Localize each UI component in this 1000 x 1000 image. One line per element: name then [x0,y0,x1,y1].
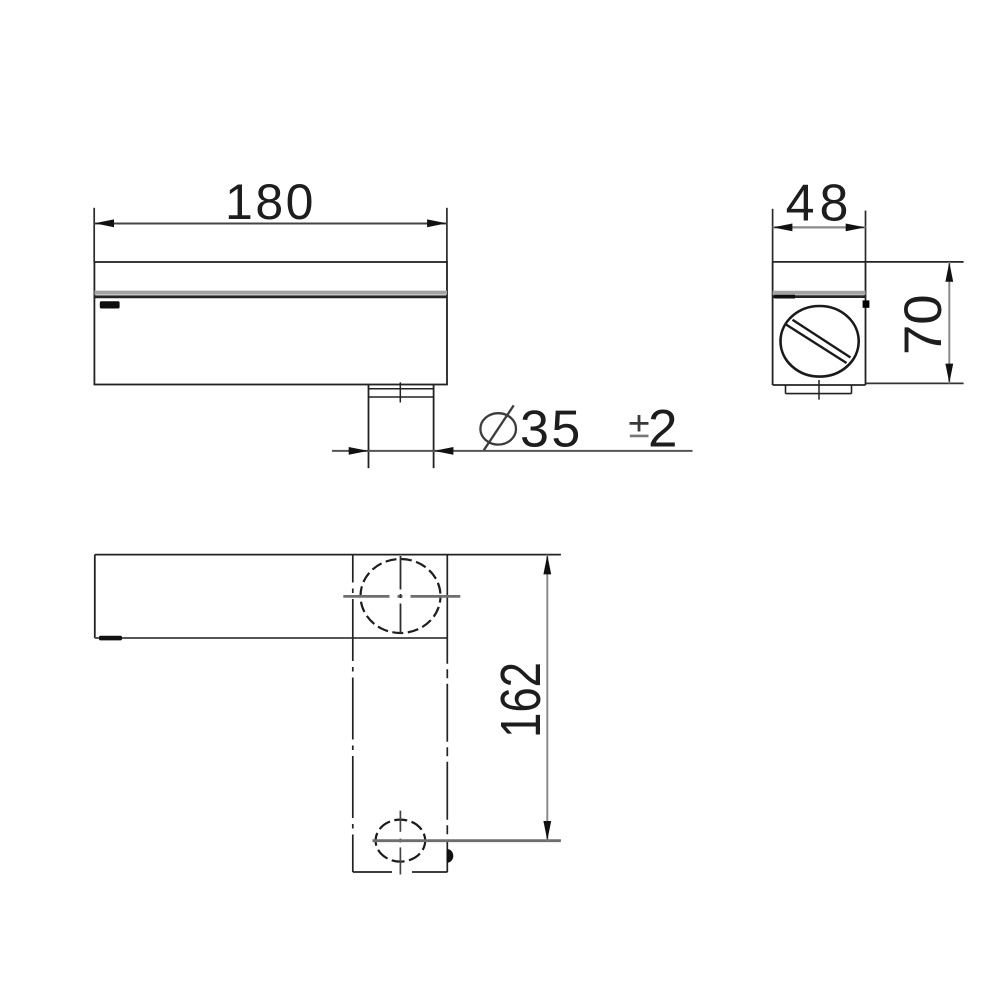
svg-text:162: 162 [488,662,552,738]
side view dark parting line [94,295,447,298]
svg-text:35: 35 [520,401,583,459]
arrowhead pointing left at spout right [434,447,454,455]
arrowhead bottom of 162 dim [543,821,551,841]
arrowhead right of 180 dim [427,219,447,227]
dimension line dia35 [332,450,693,452]
arm bottom line [95,637,448,639]
arrowhead top of 70 dim [945,262,953,282]
plan top line (arm and block top, also 162 top extension) [95,554,561,556]
end view left edge [772,262,774,385]
top circle horizontal centerline dash left [343,595,389,598]
top circle vertical centerline dash lower [400,604,402,634]
diameter symbol circle [480,413,516,444]
spout right edge [433,385,435,469]
block right edge phantom part [446,664,448,872]
end view top line (also 70 dim top extension) [773,261,964,263]
end view dark parting line [773,295,866,298]
tab center tick [818,380,820,400]
inlet vertical centerline dash upper [399,811,401,832]
bottom tab bottom edge [786,393,852,395]
arrowhead right of 48 dim [846,224,866,232]
dimension line 162 [546,555,548,841]
bottom tab right edge [851,385,853,394]
end view bottom edge [773,384,866,386]
small black dot on right edge [863,300,870,307]
svg-text:2: 2 [648,400,677,459]
arrowhead top of 162 dim [543,555,551,575]
arrowhead pointing right at spout left [349,447,369,455]
inlet vertical centerline dot [399,839,401,843]
black mark left end of parting line [774,295,795,299]
dimension line 48 [773,226,866,228]
black mark on arm bottom [99,636,122,641]
top circle horizontal centerline dash right [411,595,461,598]
end view right edge [865,262,867,385]
arrowhead left of 180 dim [95,219,115,227]
svg-text:180: 180 [225,174,316,230]
extension line left of 180 dim [93,208,95,262]
diameter symbol slash [484,405,514,450]
inlet circle (dashed hidden) [376,820,426,862]
aerator line lower [369,396,434,398]
hidden spout circle (dashed) [361,559,441,633]
top circle vertical centerline dot [400,594,402,598]
small black blob on right edge [447,849,453,863]
plus-minus symbol underline [630,435,649,438]
block left edge phantom part [352,583,354,873]
block bottom edge right part [412,871,448,873]
aerator line upper [369,388,434,390]
dimension line 180 [94,222,447,224]
extension line right of 180 dim [446,208,448,262]
arrowhead left of 48 dim [773,224,793,232]
handle slot line lower [786,325,847,364]
block right edge solid top part [446,555,448,664]
side view body outline [94,262,447,385]
black mark on side view [100,301,120,308]
spout center tick [399,382,401,402]
plus-minus symbol horizontal [630,422,649,425]
extension line left of 48 dim [772,209,774,262]
side view gray parting line [94,291,447,295]
arm left edge [94,555,96,638]
handle slot line upper [793,320,851,358]
plus-minus symbol vertical [638,415,641,432]
inlet vertical centerline dash lower [399,847,401,874]
162 bottom extension line (through inlet circle) [373,839,561,842]
svg-text:48: 48 [786,175,854,233]
handle circle [781,306,859,377]
block left edge solid top part [352,555,354,583]
70 dim bottom extension line [866,382,964,384]
extension line right of 48 dim [865,211,867,262]
top circle vertical centerline dash upper [400,556,402,590]
dimension line 70 [948,262,950,384]
spout left edge [368,385,370,469]
arrowhead bottom of 70 dim [945,364,953,384]
end view gray parting line [773,291,866,295]
block bottom edge left part [353,871,392,873]
top circle horizontal centerline dot [398,595,403,598]
svg-text:70: 70 [894,294,953,355]
bottom tab left edge [785,385,787,394]
